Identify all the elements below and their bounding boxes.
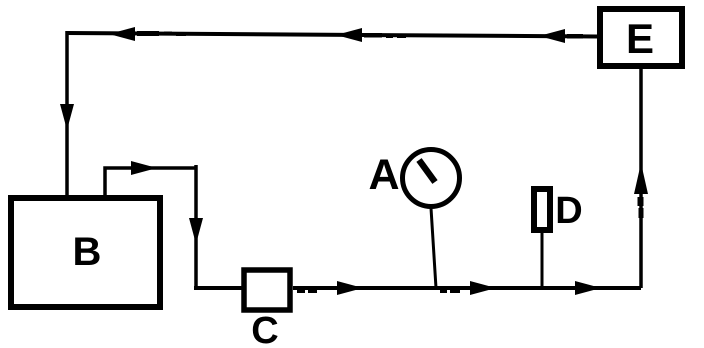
arrow left on top wire middle — [336, 28, 382, 42]
box E — [600, 9, 682, 66]
arrow right on bottom wire 3 — [575, 281, 601, 295]
wire loop vertical down to C level — [194, 165, 198, 288]
svg-text:E: E — [626, 15, 654, 62]
scan artifact dashes on top wire after middle arrow — [386, 34, 406, 38]
arrow up on right vertical — [634, 163, 648, 194]
svg-text:C: C — [251, 310, 278, 348]
arrow left on top wire near E — [539, 29, 583, 43]
arrow left on top wire near corner — [109, 27, 159, 41]
arrow right on loop horizontal — [131, 161, 157, 175]
arrow right on bottom wire 1 — [337, 281, 363, 295]
arrow right on bottom wire 2 — [470, 281, 496, 295]
svg-text:B: B — [73, 230, 102, 274]
scan artifact dashes on bottom wire after C — [297, 288, 317, 293]
scan artifact dashes on bottom wire near gauge junction — [440, 288, 460, 293]
wire left vertical (corner down to B) — [65, 31, 69, 196]
wire bottom (C to right corner) — [293, 286, 641, 290]
label A — [368, 151, 399, 199]
component D stem — [541, 233, 544, 288]
wire loop from B top up — [105, 168, 196, 196]
scan artifact squiggle on right vertical below arrow — [638, 197, 644, 218]
svg-text:A: A — [368, 151, 399, 199]
component D body — [534, 189, 550, 230]
label B — [73, 230, 102, 274]
gauge A stem — [431, 208, 436, 288]
wire top (E to left corner) — [67, 33, 597, 37]
svg-text:D: D — [555, 190, 582, 232]
wire from loop corner into C — [194, 286, 242, 290]
box C — [244, 270, 290, 310]
arrow down on loop vertical — [189, 218, 203, 244]
gauge A circle — [403, 150, 460, 207]
wire right vertical (corner up to E) — [639, 69, 643, 288]
gauge A needle — [419, 160, 435, 182]
label C — [251, 310, 278, 348]
scan artifact dashes after top arrow 1 — [164, 32, 186, 37]
arrow down on left vertical — [60, 104, 74, 130]
box B — [11, 198, 160, 307]
label D — [555, 190, 582, 232]
label E — [626, 15, 654, 62]
